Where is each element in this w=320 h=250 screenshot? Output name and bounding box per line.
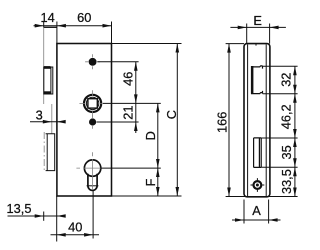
- keeper slot bottom tick: [44, 91, 51, 94]
- lower box center dash-dot line: [43, 132, 45, 171]
- ext line from cylinder: [101, 167, 161, 169]
- arrow 60 left: [57, 24, 66, 28]
- ext line from hole2: [97, 121, 139, 123]
- spindle center line dashes: [79, 90, 103, 116]
- svg-text:166: 166: [214, 112, 229, 133]
- euro cylinder chord line: [87, 185, 99, 187]
- top hole center ticks: [85, 54, 100, 69]
- arrow 35 bottom: [293, 158, 297, 167]
- dim line A: [232, 219, 281, 221]
- ext line keeper top: [263, 65, 298, 67]
- ext line E left: [246, 24, 248, 44]
- euro cylinder slot bottom arc: [88, 186, 97, 191]
- spindle square hole: [88, 99, 97, 108]
- dim line right column: [294, 66, 296, 196]
- svg-text:F: F: [143, 178, 158, 186]
- arrow 33,5 top: [293, 167, 297, 176]
- ext line case left bottom: [56, 196, 58, 242]
- svg-text:A: A: [252, 203, 261, 218]
- ext line 13,5 left: [43, 212, 45, 221]
- lock case outline: [57, 44, 112, 197]
- screw hole inner: [256, 184, 259, 187]
- dim line 13,5: [8, 215, 65, 217]
- svg-text:13,5: 13,5: [7, 201, 32, 216]
- svg-text:C: C: [164, 110, 179, 119]
- svg-text:40: 40: [68, 219, 82, 234]
- dim line 166: [228, 44, 230, 197]
- spindle follower inner ring: [86, 97, 98, 109]
- side view top seam tick: [255, 44, 257, 46]
- arrow 46 bottom 21 top: [134, 94, 138, 103]
- svg-text:E: E: [253, 13, 262, 28]
- dim line D: [157, 103, 159, 168]
- arrow 40 right: [84, 233, 93, 237]
- arrow 166 top: [227, 44, 231, 53]
- spindle follower outer ring: [84, 95, 101, 112]
- arrow 40 left: [57, 233, 66, 237]
- ext line plate bottom: [226, 196, 298, 198]
- side view inner right line: [265, 45, 267, 197]
- arrow 166 bottom: [227, 188, 231, 197]
- euro cylinder circle: [84, 160, 100, 176]
- svg-text:33,5: 33,5: [279, 169, 294, 194]
- ext line keeper bottom: [263, 93, 298, 95]
- arrow 13,5 left: [35, 214, 44, 218]
- ext line lock center bottom: [92, 191, 94, 239]
- keeper box right ticks: [262, 66, 264, 94]
- arrow 21 bottom: [134, 122, 138, 131]
- faceplate top edge: [44, 26, 57, 28]
- euro cylinder slot: [88, 174, 97, 186]
- svg-text:D: D: [143, 131, 158, 140]
- dim line 46 21: [135, 62, 137, 133]
- ext line slot bottom: [261, 166, 297, 168]
- arrow E left: [238, 26, 247, 30]
- side view inner left line: [247, 45, 249, 197]
- screw hole: [254, 181, 262, 189]
- ext line A left: [243, 200, 245, 224]
- svg-text:35: 35: [279, 145, 294, 159]
- arrow E right: [270, 26, 279, 30]
- arrow 3 left: [43, 120, 52, 124]
- arrow 32 top: [293, 66, 297, 75]
- dim line F: [157, 168, 159, 196]
- svg-text:60: 60: [77, 10, 91, 25]
- keeper box left thick wall: [251, 66, 254, 94]
- cylinder center line dashes: [76, 152, 100, 190]
- svg-text:14: 14: [40, 10, 54, 25]
- arrow 46,2 bottom: [293, 129, 297, 138]
- hole2 center ticks: [92, 115, 94, 129]
- arrow D bottom: [156, 159, 160, 168]
- dim line 40: [51, 234, 100, 236]
- hole below spindle: [89, 118, 96, 125]
- ext line 166 top: [226, 43, 244, 45]
- hook slot side view: [254, 138, 262, 168]
- ext line case bottom right: [112, 195, 182, 197]
- arrow 3 right: [57, 120, 66, 124]
- arrow 46 top: [134, 62, 138, 71]
- keeper slot top tick: [44, 66, 51, 69]
- svg-text:46,2: 46,2: [278, 104, 293, 129]
- ext line faceplate left: [43, 22, 45, 28]
- dim line 3: [30, 121, 64, 123]
- ext line A right: [268, 200, 270, 224]
- arrow 35 top: [293, 138, 297, 147]
- arrow 60 right: [103, 24, 112, 28]
- arrow F top: [156, 168, 160, 177]
- screw hole ticks: [251, 178, 265, 192]
- arrow F bottom: [156, 187, 160, 196]
- top hole: [89, 58, 97, 66]
- arrow 32 bottom: [293, 85, 297, 94]
- arrow A left: [235, 218, 244, 222]
- ext line from spindle: [103, 102, 161, 104]
- arrow A right: [269, 218, 278, 222]
- svg-text:3: 3: [36, 107, 43, 122]
- keeper slot inner line: [50, 68, 52, 94]
- ext line E right: [269, 24, 271, 44]
- ext line slot top: [261, 137, 297, 139]
- lower box: [46, 134, 55, 171]
- side view plate outline: [244, 44, 270, 197]
- arrow 46,2 top: [293, 94, 297, 103]
- ext line case right top: [111, 22, 113, 44]
- dim line C: [176, 44, 178, 197]
- arrow 33,5 bottom: [293, 188, 297, 197]
- svg-text:21: 21: [121, 105, 136, 119]
- arrow 13,5 right: [57, 214, 66, 218]
- ext line from top hole: [98, 61, 139, 63]
- svg-text:32: 32: [279, 73, 294, 87]
- arrow 14 left: [35, 24, 44, 28]
- lower box inner line: [46, 134, 48, 171]
- arrow C top: [176, 44, 180, 53]
- arrow D top: [156, 103, 160, 112]
- keeper box side view: [251, 66, 263, 94]
- dim line E: [230, 26, 286, 28]
- keeper slot box: [44, 67, 53, 94]
- faceplate left edge: [43, 27, 45, 104]
- arrow C bottom: [176, 187, 180, 196]
- ext line case top right: [112, 43, 182, 45]
- dim line 14 60: [34, 25, 112, 27]
- ext line case left top: [56, 22, 58, 44]
- faceplate lower gray edge: [51, 104, 53, 134]
- svg-text:46: 46: [121, 72, 136, 86]
